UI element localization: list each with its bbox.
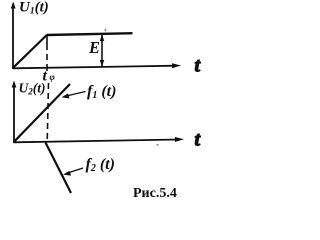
f2 leader line — [66, 168, 83, 174]
speck below bottom axis (scan artifact) — [157, 144, 159, 145]
svg-text:f2 (t): f2 (t) — [86, 156, 115, 174]
graph 1 horizontal axis (t) — [13, 66, 177, 69]
graph 2 vertical axis — [13, 84, 15, 143]
dashed vertical at t_phi (graph 2) — [47, 83, 48, 142]
f1 leader line — [64, 92, 86, 97]
graph 1 vertical axis arrowhead — [11, 2, 16, 9]
f2 leader arrowhead — [63, 171, 71, 176]
svg-text:φ: φ — [50, 72, 55, 82]
speck above flat line (scan artifact) — [105, 29, 107, 32]
svg-text:Рис.5.4: Рис.5.4 — [133, 186, 177, 201]
graph 2 vertical axis arrowhead — [12, 81, 17, 88]
E arrowhead down — [100, 60, 104, 67]
graph 1 ramp segment — [13, 35, 47, 68]
graph 2 t-axis arrowhead — [175, 137, 184, 142]
f1 leader arrowhead — [62, 94, 70, 99]
graph 1 vertical axis — [12, 5, 14, 69]
svg-text:U1(t): U1(t) — [19, 0, 49, 17]
E arrowhead up — [100, 34, 104, 41]
ramp f1 — [14, 84, 71, 142]
svg-text:U2(t): U2(t) — [19, 81, 46, 97]
graph 2 horizontal axis (t) — [14, 140, 180, 143]
svg-text:E: E — [88, 38, 100, 57]
E measurement line — [101, 35, 103, 67]
f2 descending line — [46, 143, 72, 194]
dashed drop at t_phi (graph 1) — [46, 35, 48, 72]
svg-text:f1 (t): f1 (t) — [87, 83, 116, 101]
graph 1 t-axis arrowhead — [172, 63, 181, 68]
graph 1 flat segment — [47, 33, 133, 35]
